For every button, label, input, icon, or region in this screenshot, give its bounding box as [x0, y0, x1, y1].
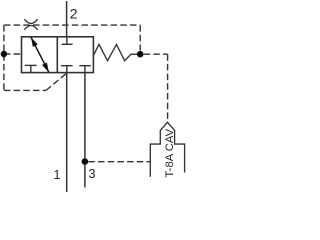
svg-text:3: 3: [89, 167, 96, 181]
svg-text:1: 1: [54, 168, 61, 182]
svg-text:T-8A CAV: T-8A CAV: [164, 128, 176, 177]
svg-text:2: 2: [70, 5, 78, 21]
